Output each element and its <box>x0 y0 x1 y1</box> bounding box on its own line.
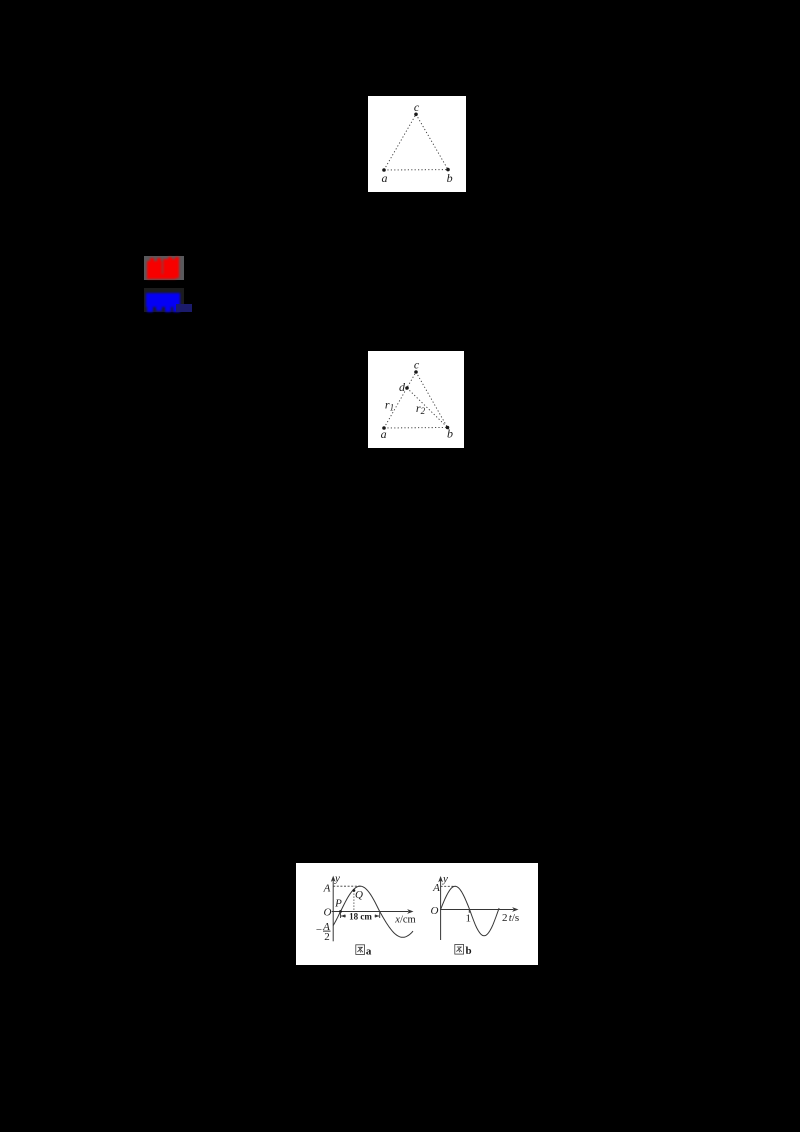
node b <box>446 168 450 172</box>
svg-text:A: A <box>432 882 440 894</box>
x arrowhead a <box>407 909 413 914</box>
node c <box>414 370 418 374</box>
figure 2: dotted triangle a b c with point d <box>368 351 464 448</box>
18 cm double arrow <box>341 912 380 919</box>
svg-text:y: y <box>442 873 448 885</box>
svg-text:d: d <box>399 380 406 394</box>
y axis b <box>440 879 442 941</box>
y arrowhead a <box>331 876 336 882</box>
svg-text:18 cm: 18 cm <box>349 912 372 922</box>
svg-text:O: O <box>324 906 332 918</box>
x arrowhead b <box>512 907 518 912</box>
y arrowhead b <box>438 876 443 882</box>
figure 3: two wave graphs <box>296 863 538 965</box>
svg-text:Q: Q <box>355 889 363 901</box>
node Q on curve <box>353 889 356 892</box>
dashed amplitude line a <box>333 885 360 887</box>
svg-text:−: − <box>316 924 322 936</box>
wire c-b <box>416 372 448 428</box>
node P on axis <box>339 910 342 913</box>
svg-text:2: 2 <box>324 931 330 943</box>
node a <box>382 168 386 172</box>
svg-text:t/s: t/s <box>509 912 519 924</box>
navy cursor block <box>176 304 192 312</box>
figure 1: dotted triangle a b c <box>368 96 466 192</box>
svg-text:r1: r1 <box>385 398 394 413</box>
red highlighted answer blob <box>144 256 184 280</box>
svg-text:a: a <box>381 427 387 441</box>
svg-text:x/cm: x/cm <box>394 914 415 925</box>
svg-text:b: b <box>447 427 453 441</box>
svg-text:a: a <box>382 171 388 185</box>
svg-text:O: O <box>431 905 439 917</box>
wire c-b <box>416 114 448 169</box>
svg-text:A: A <box>323 883 331 895</box>
node a <box>382 426 386 430</box>
svg-text:c: c <box>414 358 420 372</box>
node b <box>446 426 450 430</box>
svg-text:1: 1 <box>466 912 472 924</box>
dotted Q vertical line <box>353 891 355 912</box>
svg-text:P: P <box>334 897 342 909</box>
svg-text:b: b <box>465 945 471 957</box>
labels graph a <box>316 873 416 944</box>
wire a-b <box>384 427 448 430</box>
sine curve b <box>441 886 500 936</box>
x axis a <box>332 911 409 913</box>
wire a-b <box>384 169 448 171</box>
node c <box>414 113 418 117</box>
svg-text:b: b <box>447 171 453 185</box>
wire a-c <box>384 114 416 170</box>
svg-text:y: y <box>334 873 340 885</box>
svg-text:2: 2 <box>502 912 508 924</box>
y axis a <box>332 878 334 941</box>
svg-text:a: a <box>366 945 372 957</box>
blue analysis blob <box>144 288 184 312</box>
sine curve a <box>333 886 413 937</box>
dashed amplitude line b <box>441 885 455 887</box>
node d <box>405 386 409 390</box>
wire d-b <box>407 388 448 428</box>
labels graph b <box>431 873 520 924</box>
x axis b <box>440 909 514 911</box>
svg-text:c: c <box>414 100 420 114</box>
wire a-c <box>384 372 416 428</box>
tick at t=1 <box>468 910 470 913</box>
svg-text:r2: r2 <box>416 401 426 416</box>
caption 图a <box>356 945 365 955</box>
caption 图b <box>455 945 464 955</box>
